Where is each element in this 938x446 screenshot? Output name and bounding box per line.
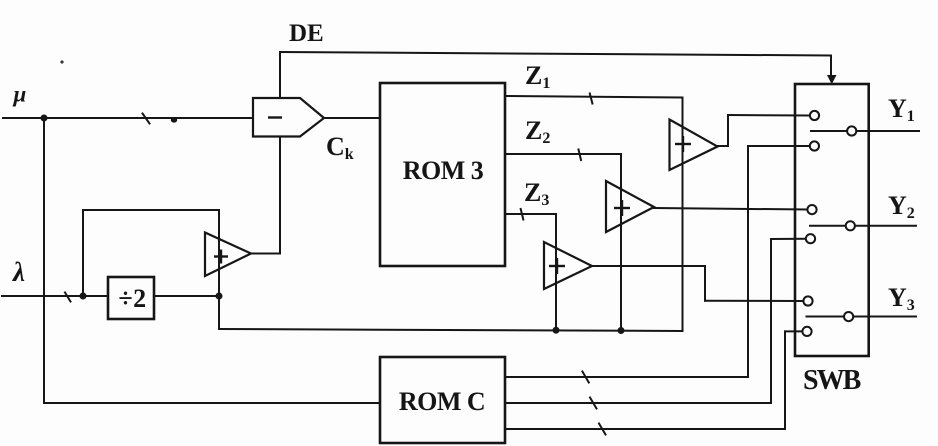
svg-text:DE: DE	[289, 20, 324, 47]
svg-text:SWB: SWB	[803, 365, 861, 396]
svg-text:÷2: ÷2	[118, 284, 146, 313]
svg-text:ROM C: ROM C	[399, 387, 485, 416]
svg-text:μ: μ	[13, 82, 27, 107]
svg-text:ROM 3: ROM 3	[403, 156, 484, 185]
svg-text:λ: λ	[12, 257, 25, 287]
